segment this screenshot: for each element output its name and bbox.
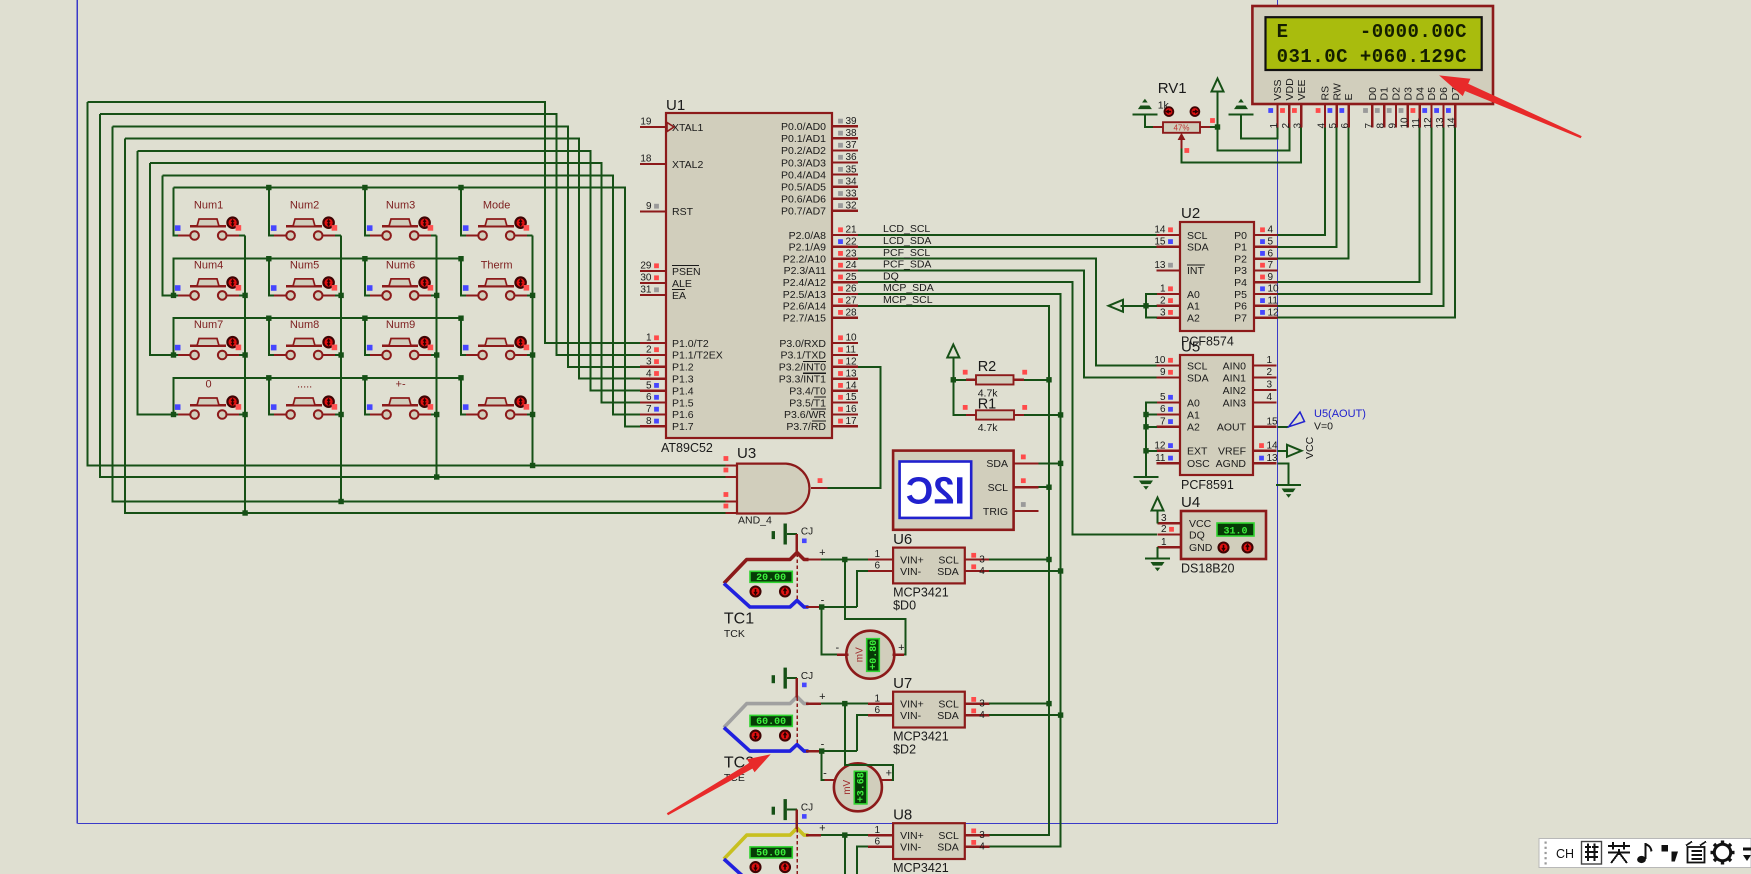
svg-text:16: 16 bbox=[846, 404, 858, 415]
wire U2 port to LCD bbox=[1278, 128, 1349, 259]
node label MCP_SCL bbox=[883, 294, 933, 306]
ground terminal (arrow) for U2 address bbox=[1109, 300, 1124, 312]
svg-text:3: 3 bbox=[1293, 123, 1304, 129]
cold junction CJ bbox=[772, 799, 814, 829]
svg-text:50.00: 50.00 bbox=[756, 849, 786, 860]
wire keypad column/row return bbox=[100, 114, 726, 477]
wire VIN- down bbox=[857, 715, 868, 751]
svg-text:SCL: SCL bbox=[1187, 230, 1208, 242]
svg-text:GND: GND bbox=[1189, 542, 1213, 554]
LCD display LM016L bbox=[1252, 6, 1493, 129]
svg-text:ALE: ALE bbox=[672, 278, 692, 290]
svg-text:MCP_SDA: MCP_SDA bbox=[883, 282, 934, 294]
svg-text:MCP3421: MCP3421 bbox=[893, 730, 949, 744]
svg-text:P4: P4 bbox=[1234, 277, 1247, 289]
wire keypad net to P1.3 bbox=[125, 139, 640, 379]
wire bbox=[323, 294, 342, 296]
wire pullup common bbox=[953, 358, 966, 415]
svg-text:23: 23 bbox=[846, 248, 858, 259]
annotation arrow to LCD bbox=[1439, 75, 1582, 138]
svg-text:P0.4/AD4: P0.4/AD4 bbox=[781, 169, 826, 181]
svg-text:U5(AOUT): U5(AOUT) bbox=[1314, 408, 1366, 420]
svg-text:4: 4 bbox=[646, 368, 652, 379]
svg-text:VCC: VCC bbox=[1189, 518, 1212, 530]
node label + bbox=[819, 823, 825, 835]
svg-text:11: 11 bbox=[1155, 453, 1166, 464]
svg-text:P3.5/T1: P3.5/T1 bbox=[789, 397, 826, 409]
push button Num1 bbox=[175, 200, 241, 240]
wire bbox=[323, 235, 342, 237]
svg-text:P3.4/T0: P3.4/T0 bbox=[789, 385, 826, 397]
node label LCD_SCL bbox=[883, 223, 930, 235]
svg-text:-: - bbox=[821, 595, 825, 607]
svg-text:D6: D6 bbox=[1438, 87, 1450, 101]
svg-text:4: 4 bbox=[979, 566, 985, 577]
junction bbox=[1058, 412, 1063, 417]
wire I2C SCL bbox=[1039, 486, 1050, 488]
svg-text:47%: 47% bbox=[1173, 124, 1189, 133]
svg-text:4: 4 bbox=[979, 841, 985, 852]
svg-text:4: 4 bbox=[1268, 225, 1274, 236]
wire MCP_SCL bbox=[858, 306, 1049, 835]
svg-text:DQ: DQ bbox=[883, 270, 899, 282]
svg-text:P1.1/T2EX: P1.1/T2EX bbox=[672, 350, 723, 362]
wire bus drop bbox=[269, 259, 274, 296]
cold junction CJ bbox=[772, 668, 814, 698]
svg-text:29: 29 bbox=[640, 261, 652, 272]
wire bus drop bbox=[365, 378, 370, 415]
svg-text:P7: P7 bbox=[1234, 312, 1247, 324]
junction bbox=[338, 293, 343, 298]
junction bbox=[362, 316, 367, 321]
svg-text:13: 13 bbox=[1435, 117, 1446, 129]
wire VIN- down bbox=[857, 847, 868, 874]
svg-text:Num1: Num1 bbox=[194, 200, 223, 212]
svg-text:4.7k: 4.7k bbox=[978, 422, 999, 434]
thermocouple TC1 TCK bbox=[724, 548, 821, 640]
resistor R1 4.7k bbox=[963, 397, 1027, 435]
push button Num9 bbox=[367, 319, 433, 359]
svg-text:EA: EA bbox=[672, 290, 686, 302]
wire bus drop bbox=[365, 318, 370, 355]
wire U4 GND bbox=[1157, 547, 1159, 558]
svg-text:A0: A0 bbox=[1187, 289, 1200, 301]
wire U2 port to LCD bbox=[1278, 128, 1444, 306]
wire SCL to bus bbox=[989, 703, 1049, 705]
svg-text:SCL: SCL bbox=[938, 554, 959, 566]
wire U2 port to LCD bbox=[1278, 128, 1432, 295]
wire keypad column 2 bbox=[340, 236, 342, 502]
potentiometer RV1 1k bbox=[1153, 80, 1215, 153]
svg-text:34: 34 bbox=[846, 176, 858, 187]
wire VSS ground bbox=[1241, 115, 1278, 139]
IME language toolbar bbox=[1539, 839, 1751, 868]
wire bus drop bbox=[461, 259, 466, 296]
wire bus drop bbox=[269, 188, 274, 236]
svg-text:.....: ..... bbox=[297, 379, 312, 391]
svg-text:VIN+: VIN+ bbox=[900, 698, 924, 710]
junction bbox=[242, 293, 247, 298]
junction bbox=[1058, 461, 1063, 466]
ground bbox=[1134, 477, 1159, 490]
wire U2 address tie bbox=[1121, 294, 1158, 318]
power terminal bbox=[947, 345, 959, 358]
svg-text:1: 1 bbox=[1161, 537, 1167, 548]
junction bbox=[362, 375, 367, 380]
svg-text:+: + bbox=[886, 768, 892, 780]
junction bbox=[1046, 557, 1051, 562]
svg-text:VIN+: VIN+ bbox=[900, 830, 924, 842]
push button unnamed bbox=[463, 397, 529, 419]
wire SDA to bus bbox=[989, 714, 1061, 716]
voltage probe U5(AOUT) bbox=[1289, 408, 1366, 433]
wire TC+ to VIN+ bbox=[821, 703, 868, 705]
wire keypad column/row return bbox=[125, 139, 726, 513]
svg-text:Num9: Num9 bbox=[386, 319, 415, 331]
wire TC- net bbox=[821, 606, 857, 608]
svg-text:36: 36 bbox=[846, 152, 858, 163]
svg-text:$D2: $D2 bbox=[893, 743, 916, 757]
svg-text:19: 19 bbox=[640, 117, 652, 128]
junction bbox=[458, 256, 463, 261]
wire DQ bbox=[858, 282, 1157, 534]
svg-text:-: - bbox=[823, 768, 827, 780]
svg-text:3: 3 bbox=[979, 830, 985, 841]
wire keypad column 4 bbox=[532, 236, 534, 466]
wire bbox=[419, 354, 437, 356]
svg-text:XTAL2: XTAL2 bbox=[672, 159, 703, 171]
svg-text:11: 11 bbox=[1268, 296, 1279, 307]
svg-text:P2.6/A14: P2.6/A14 bbox=[783, 301, 826, 313]
svg-text:U4: U4 bbox=[1181, 494, 1200, 511]
svg-text:6: 6 bbox=[875, 561, 881, 572]
svg-text:LCD_SDA: LCD_SDA bbox=[883, 235, 931, 247]
svg-text:P0.0/AD0: P0.0/AD0 bbox=[781, 121, 826, 133]
push button Num8 bbox=[271, 319, 337, 359]
svg-text:TC1: TC1 bbox=[724, 611, 754, 628]
junction bbox=[842, 832, 847, 837]
junction bbox=[171, 293, 176, 298]
wire TC+ to VIN+ bbox=[821, 559, 868, 561]
wire + to meter bbox=[845, 704, 893, 780]
svg-text:10: 10 bbox=[1268, 284, 1280, 295]
wire PCF_SDA bbox=[858, 270, 1159, 377]
svg-text:AIN3: AIN3 bbox=[1223, 397, 1247, 409]
svg-text:A0: A0 bbox=[1187, 397, 1200, 409]
IO expander U2 PCF8574 bbox=[1154, 205, 1279, 349]
svg-text:U8: U8 bbox=[893, 807, 912, 824]
svg-text:Therm: Therm bbox=[481, 259, 513, 271]
wire VIN- down bbox=[857, 571, 868, 607]
svg-text:PCF_SCL: PCF_SCL bbox=[883, 247, 930, 259]
wire keypad net to P1.6 bbox=[163, 175, 641, 414]
wire LCD_SDA bbox=[858, 246, 1157, 248]
wire bus drop bbox=[365, 188, 370, 236]
svg-text:5: 5 bbox=[646, 380, 652, 391]
annotation arrow to TC2 bbox=[667, 754, 771, 815]
svg-text:26: 26 bbox=[846, 284, 858, 295]
svg-text:PCF_SDA: PCF_SDA bbox=[883, 259, 931, 271]
svg-text:0: 0 bbox=[206, 379, 212, 391]
svg-text:14: 14 bbox=[846, 380, 858, 391]
junction bbox=[951, 377, 956, 382]
svg-text:CJ: CJ bbox=[801, 527, 813, 538]
ADC U7 MCP3421 bbox=[868, 675, 989, 757]
wire bbox=[323, 354, 342, 356]
svg-text:P1: P1 bbox=[1234, 242, 1247, 254]
svg-text:13: 13 bbox=[1154, 260, 1166, 271]
wire R1 to MCP_SDA bbox=[1024, 414, 1061, 416]
svg-text:Num3: Num3 bbox=[386, 200, 415, 212]
svg-text:3: 3 bbox=[646, 357, 652, 368]
svg-text:MCP3421: MCP3421 bbox=[893, 586, 949, 600]
wire bbox=[515, 414, 533, 416]
wire bbox=[515, 294, 533, 296]
svg-text:+: + bbox=[819, 823, 825, 835]
svg-text:3: 3 bbox=[979, 554, 985, 565]
svg-text:E -0000.00C: E -0000.00C bbox=[1277, 21, 1467, 43]
wire bus drop bbox=[365, 259, 370, 296]
svg-text:SDA: SDA bbox=[1187, 372, 1209, 384]
wire bus drop bbox=[269, 378, 274, 415]
wire SCL to bus bbox=[989, 559, 1049, 561]
push button unnamed bbox=[463, 337, 529, 359]
svg-text:P1.0/T2: P1.0/T2 bbox=[672, 338, 709, 350]
wire RV1 right to VCC bbox=[1210, 92, 1218, 128]
junction bbox=[338, 352, 343, 357]
junction bbox=[1143, 303, 1148, 308]
thermocouple TC3 bbox=[724, 823, 821, 874]
ADC U6 MCP3421 bbox=[868, 531, 989, 613]
svg-text:SDA: SDA bbox=[937, 710, 959, 722]
wire U2 port to LCD bbox=[1278, 128, 1337, 247]
svg-text:AGND: AGND bbox=[1216, 458, 1247, 470]
svg-text:-: - bbox=[821, 870, 825, 874]
svg-text:P3.0/RXD: P3.0/RXD bbox=[779, 338, 826, 350]
AND gate U3 AND_4 bbox=[724, 445, 828, 527]
svg-text:A2: A2 bbox=[1187, 422, 1200, 434]
junction bbox=[266, 185, 271, 190]
junction bbox=[530, 293, 535, 298]
node label MCP_SDA bbox=[883, 282, 934, 294]
wire U5 AGND bbox=[1278, 463, 1289, 485]
svg-text:2: 2 bbox=[1267, 367, 1273, 378]
svg-text:Num5: Num5 bbox=[290, 259, 319, 271]
svg-text:12: 12 bbox=[1423, 117, 1434, 129]
svg-text:8: 8 bbox=[646, 416, 652, 427]
svg-text:+: + bbox=[819, 691, 825, 703]
junction bbox=[434, 293, 439, 298]
svg-text:CH: CH bbox=[1556, 847, 1574, 861]
svg-text:Num4: Num4 bbox=[194, 259, 223, 271]
svg-text:6: 6 bbox=[1160, 404, 1166, 415]
svg-text:A2: A2 bbox=[1187, 312, 1200, 324]
svg-text:P3.7/RD: P3.7/RD bbox=[786, 421, 826, 433]
svg-text:+0.80: +0.80 bbox=[869, 640, 880, 670]
svg-text:P0.2/AD2: P0.2/AD2 bbox=[781, 145, 826, 157]
wire U5 AOUT bbox=[1278, 426, 1289, 428]
svg-text:EXT: EXT bbox=[1187, 446, 1208, 458]
svg-text:8: 8 bbox=[1376, 123, 1387, 129]
svg-text:7: 7 bbox=[1364, 123, 1375, 129]
svg-text:U1: U1 bbox=[666, 97, 685, 114]
svg-text:22: 22 bbox=[846, 237, 858, 248]
ADC/DAC U5 PCF8591 bbox=[1154, 339, 1278, 493]
wire MCP_SDA bbox=[858, 294, 1061, 847]
wire + down bbox=[844, 835, 846, 874]
svg-text:P3.1/TXD: P3.1/TXD bbox=[780, 350, 826, 362]
svg-text:I2C: I2C bbox=[906, 471, 965, 513]
junction bbox=[434, 352, 439, 357]
junction bbox=[842, 557, 847, 562]
wire keypad column/row return bbox=[163, 175, 174, 295]
push button Num5 bbox=[271, 259, 337, 299]
wire U5 VREF bbox=[1278, 450, 1288, 452]
wire bbox=[227, 354, 246, 356]
power terminal bbox=[1212, 79, 1224, 92]
svg-text:12: 12 bbox=[1268, 307, 1280, 318]
push button Mode bbox=[463, 200, 529, 240]
wire + to meter bbox=[845, 560, 906, 655]
svg-text:5: 5 bbox=[1160, 392, 1166, 403]
svg-text:PSEN: PSEN bbox=[672, 266, 701, 278]
junction bbox=[434, 474, 439, 479]
power terminal bbox=[1152, 498, 1164, 511]
svg-text:AOUT: AOUT bbox=[1217, 422, 1247, 434]
svg-text:24: 24 bbox=[846, 260, 858, 271]
wire keypad net to P1.2 bbox=[113, 126, 641, 366]
svg-text:VIN+: VIN+ bbox=[900, 554, 924, 566]
svg-text:U5: U5 bbox=[1181, 339, 1200, 356]
wire U4 VCC bbox=[1157, 511, 1159, 524]
svg-text:21: 21 bbox=[846, 225, 858, 236]
ground bbox=[1229, 99, 1254, 115]
wire - to meter bbox=[822, 751, 825, 780]
wire LCD_SCL bbox=[858, 234, 1157, 236]
svg-text:3: 3 bbox=[1160, 307, 1166, 318]
svg-text:AIN2: AIN2 bbox=[1223, 385, 1247, 397]
svg-text:U7: U7 bbox=[893, 675, 912, 692]
svg-text:XTAL1: XTAL1 bbox=[672, 122, 703, 134]
svg-text:1: 1 bbox=[646, 333, 652, 344]
ground bbox=[1132, 99, 1157, 115]
wire bus drop bbox=[174, 188, 179, 236]
svg-text:20.00: 20.00 bbox=[756, 573, 786, 584]
svg-text:3: 3 bbox=[1267, 380, 1273, 391]
svg-text:31.0: 31.0 bbox=[1223, 527, 1247, 538]
svg-text:+-: +- bbox=[396, 379, 406, 391]
svg-text:D1: D1 bbox=[1379, 87, 1391, 101]
svg-text:4: 4 bbox=[1267, 392, 1273, 403]
svg-text:Num7: Num7 bbox=[194, 319, 223, 331]
svg-text:mV: mV bbox=[854, 647, 865, 662]
junction bbox=[1046, 377, 1051, 382]
svg-text:13: 13 bbox=[846, 368, 858, 379]
svg-text:MCP3421: MCP3421 bbox=[893, 861, 949, 874]
svg-text:CJ: CJ bbox=[801, 802, 813, 813]
svg-text:-: - bbox=[821, 739, 825, 751]
svg-text:13: 13 bbox=[1267, 453, 1279, 464]
svg-text:+: + bbox=[819, 547, 825, 559]
wire keypad column 1 bbox=[244, 236, 246, 514]
junction bbox=[1058, 568, 1063, 573]
svg-text:+3.68: +3.68 bbox=[857, 772, 868, 802]
svg-text:P2.7/A15: P2.7/A15 bbox=[783, 312, 826, 324]
node label - bbox=[821, 870, 825, 874]
svg-text:VIN-: VIN- bbox=[900, 566, 922, 578]
svg-text:031.0C +060.129C: 031.0C +060.129C bbox=[1277, 46, 1467, 68]
svg-text:P2.5/A13: P2.5/A13 bbox=[783, 289, 826, 301]
node label LCD_SDA bbox=[883, 235, 931, 247]
svg-text:7: 7 bbox=[1268, 260, 1274, 271]
wire keypad column 3 bbox=[436, 236, 438, 478]
svg-text:9: 9 bbox=[1388, 123, 1399, 129]
svg-text:SCL: SCL bbox=[938, 830, 959, 842]
svg-text:15: 15 bbox=[846, 392, 858, 403]
push button 0 bbox=[175, 379, 241, 419]
wire keypad row 2 bus bbox=[174, 259, 462, 296]
svg-text:2: 2 bbox=[1160, 296, 1166, 307]
svg-text:D5: D5 bbox=[1426, 87, 1438, 101]
junction bbox=[242, 412, 247, 417]
svg-text:CJ: CJ bbox=[801, 671, 813, 682]
svg-text:60.00: 60.00 bbox=[756, 717, 786, 728]
svg-text:D2: D2 bbox=[1391, 87, 1403, 101]
svg-text:D0: D0 bbox=[1367, 87, 1379, 101]
svg-text:SDA: SDA bbox=[1187, 242, 1209, 254]
svg-text:SCL: SCL bbox=[988, 482, 1009, 494]
svg-text:2: 2 bbox=[646, 345, 652, 356]
junction bbox=[530, 463, 535, 468]
svg-text:DQ: DQ bbox=[1189, 529, 1205, 541]
svg-text:P1.4: P1.4 bbox=[672, 385, 694, 397]
cold junction CJ bbox=[772, 524, 814, 554]
junction bbox=[266, 316, 271, 321]
thermocouple TC2 TCE bbox=[724, 692, 821, 784]
svg-text:V=0: V=0 bbox=[1314, 421, 1333, 433]
wire keypad column/row return bbox=[138, 151, 174, 415]
wire bbox=[174, 354, 179, 356]
svg-text:-: - bbox=[835, 642, 839, 654]
ADC U8 MCP3421 bbox=[868, 807, 989, 874]
junction bbox=[819, 748, 824, 753]
svg-text:VSS: VSS bbox=[1272, 79, 1284, 100]
svg-text:P1.3: P1.3 bbox=[672, 374, 694, 386]
svg-text:P6: P6 bbox=[1234, 301, 1247, 313]
svg-text:2: 2 bbox=[1161, 524, 1167, 535]
svg-text:D3: D3 bbox=[1402, 87, 1414, 101]
svg-text:9: 9 bbox=[646, 201, 652, 212]
junction bbox=[1143, 448, 1148, 453]
push button +- bbox=[367, 379, 433, 419]
svg-text:10: 10 bbox=[1399, 117, 1410, 129]
junction bbox=[530, 352, 535, 357]
temperature sensor U4 DS18B20 bbox=[1158, 494, 1267, 576]
svg-text:1: 1 bbox=[875, 693, 881, 704]
svg-text:P1.5: P1.5 bbox=[672, 397, 694, 409]
svg-text:VCC: VCC bbox=[1304, 436, 1316, 459]
svg-text:INT: INT bbox=[1187, 265, 1205, 277]
push button Num3 bbox=[367, 200, 433, 240]
millivolt meter 1 bbox=[835, 631, 904, 679]
junction bbox=[530, 412, 535, 417]
svg-text:SDA: SDA bbox=[986, 458, 1008, 470]
push button ..... bbox=[271, 379, 337, 419]
wire TC- net bbox=[821, 750, 857, 752]
svg-text:VIN-: VIN- bbox=[900, 710, 922, 722]
svg-text:3: 3 bbox=[1161, 513, 1167, 524]
svg-text:14: 14 bbox=[1154, 225, 1166, 236]
